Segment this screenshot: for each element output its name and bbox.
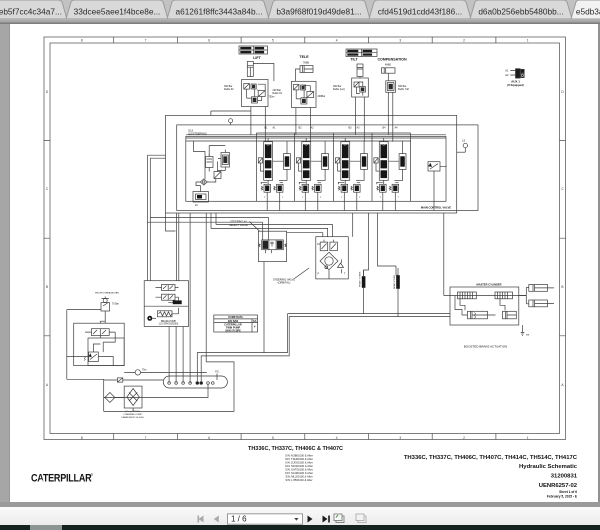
label 300 bar relief lift <box>224 85 234 91</box>
wire to master cylinder supply <box>353 213 444 296</box>
master cylinder tank port <box>521 325 530 337</box>
svg-text:3: 3 <box>399 436 401 440</box>
svg-text:B: B <box>561 285 563 289</box>
steering cylinder 1 <box>529 285 554 292</box>
svg-text:RELIFE (GREASE) FAN: RELIFE (GREASE) FAN <box>95 291 119 294</box>
pump block links <box>93 321 115 365</box>
section port labels <box>265 127 399 130</box>
svg-text:MASTER CYLINDER: MASTER CYLINDER <box>477 282 502 286</box>
svg-text:6: 6 <box>208 436 210 440</box>
wires below aux <box>457 151 466 153</box>
main pump block <box>74 323 125 365</box>
tele valve box <box>292 81 317 107</box>
slave cylinder right <box>503 311 517 319</box>
svg-text:31200831: 31200831 <box>551 474 578 480</box>
manifold body <box>163 376 227 388</box>
svg-text:75 Bar: 75 Bar <box>112 303 119 306</box>
main valve pressure rails <box>186 135 446 141</box>
svg-text:P.S.: P.S. <box>215 371 219 373</box>
svg-text:BRAKE PUMP: BRAKE PUMP <box>161 320 177 323</box>
label relief grease fan <box>95 291 119 294</box>
svg-text:CATERPILLAR: CATERPILLAR <box>31 473 92 485</box>
pump solenoid valve <box>85 329 115 336</box>
svg-text:B3: B3 <box>349 127 353 130</box>
label 200 bar relief lift <box>269 89 283 99</box>
steering cylinder 2 <box>529 300 554 307</box>
svg-text:A1: A1 <box>505 69 509 73</box>
svg-text:COMPENSATION: COMPENSATION <box>377 58 406 62</box>
svg-text:4: 4 <box>336 39 338 43</box>
footer model list <box>404 455 578 499</box>
aux1 quick couplers <box>510 69 524 78</box>
tele valve internals <box>294 85 314 105</box>
label steering unit <box>273 277 295 284</box>
svg-text:S/N: MJB00100 & After: S/N: MJB00100 & After <box>285 454 313 458</box>
svg-text:TILT: TILT <box>350 58 358 62</box>
svg-text:Hydraulic Schematic: Hydraulic Schematic <box>519 464 578 470</box>
previous page button (disabled) <box>214 516 219 523</box>
svg-text:8: 8 <box>81 39 83 43</box>
border zone letters and numbers <box>46 39 565 440</box>
svg-text:LS: LS <box>462 139 465 143</box>
svg-text:750m: 750m <box>269 96 275 99</box>
svg-text:A3: A3 <box>357 127 361 130</box>
svg-text:REAR STEER: REAR STEER <box>393 275 396 289</box>
steering unit leader <box>295 268 310 279</box>
compensation valve <box>386 81 396 93</box>
brake pump motor <box>147 316 156 321</box>
svg-text:300 BAR: 300 BAR <box>228 320 238 323</box>
ols check component <box>214 172 221 179</box>
valve section 1 lift spool <box>258 138 290 211</box>
tilt valve box <box>352 78 369 97</box>
svg-text:Sheet 1 of 6: Sheet 1 of 6 <box>559 490 577 494</box>
svg-text:Relife (Let): Relife (Let) <box>333 88 345 91</box>
manifold ps tick <box>216 374 218 381</box>
label 300 bar tilt <box>333 85 345 91</box>
manifold drain line <box>104 384 208 397</box>
legend table 2 <box>346 49 377 57</box>
manifold steer lines <box>197 262 289 382</box>
return filter box <box>124 386 142 408</box>
fan relief left loop <box>67 310 104 412</box>
browser tab bar <box>0 0 600 19</box>
svg-text:S/N: DJG00100 & After: S/N: DJG00100 & After <box>285 461 313 465</box>
svg-text:(If Equipped): (If Equipped) <box>507 83 524 87</box>
rear steer coupler <box>393 268 400 317</box>
ls vent port <box>462 139 467 153</box>
svg-text:2: 2 <box>463 39 465 43</box>
brake pump strainer <box>158 308 179 317</box>
svg-text:D: D <box>561 90 564 94</box>
svg-text:MAIN CONTROL VALVE: MAIN CONTROL VALVE <box>421 206 451 210</box>
lift valve box <box>242 80 268 107</box>
svg-text:LIFT: LIFT <box>253 56 261 60</box>
pump relief valve <box>67 352 99 362</box>
tilt cylinder <box>357 64 363 78</box>
svg-text:4: 4 <box>336 436 338 440</box>
master cylinder upper left <box>458 292 477 299</box>
border zone ticks bottom <box>114 434 496 440</box>
svg-text:B1: B1 <box>265 127 269 130</box>
svg-text:C: C <box>46 187 49 191</box>
svg-text:AUX 1: AUX 1 <box>511 80 520 84</box>
svg-text:4HB0: 4HB0 <box>385 63 392 66</box>
svg-text:#: # <box>254 326 256 329</box>
lift valve internals <box>244 84 265 104</box>
valve section 3 tilt spool <box>335 138 367 211</box>
svg-text:A2: A2 <box>311 127 315 130</box>
svg-text:A2: A2 <box>505 73 509 77</box>
compensation cylinder <box>382 68 396 81</box>
ols wiring <box>194 141 226 192</box>
wire main valve left edge drop <box>166 213 176 231</box>
slave cylinder left <box>462 311 488 319</box>
first page button (disabled) <box>198 516 204 523</box>
master cylinder internal wires <box>455 296 505 316</box>
sheet border outer frame <box>44 37 566 440</box>
svg-text:S/N: MLJ00100 & After: S/N: MLJ00100 & After <box>285 475 312 479</box>
svg-text:UENR6257-02: UENR6257-02 <box>539 483 578 489</box>
ols bottom relief box <box>193 192 208 208</box>
strip between tabs and page <box>0 19 600 24</box>
steering unit check bottom <box>338 259 344 273</box>
label combined pump <box>121 411 144 419</box>
svg-text:75m: 75m <box>142 370 147 372</box>
svg-text:D: D <box>46 90 49 94</box>
serial number list <box>285 454 313 483</box>
border zone ticks top <box>114 37 496 43</box>
svg-text:TH336C, TH337C, TH406C, TH407C: TH336C, TH337C, TH406C, TH407C, TH414C, … <box>404 455 578 461</box>
steering unit top wires <box>211 213 332 237</box>
tilt valve internals <box>354 82 365 96</box>
svg-text:S/N: TDH00100 & After: S/N: TDH00100 & After <box>285 457 313 461</box>
wires comp valve to main valve <box>388 92 393 141</box>
svg-text:®: ® <box>91 473 94 477</box>
main control valve outer body <box>166 115 457 213</box>
wires main valve bottom left drops <box>148 155 166 281</box>
pilot solenoid valve 2 <box>156 294 179 300</box>
svg-text:Relife #2: Relife #2 <box>224 88 234 91</box>
svg-text:DRAIN RATIO 55.0000: DRAIN RATIO 55.0000 <box>121 416 144 419</box>
steering cylinder feed split <box>519 288 529 304</box>
svg-text:C: C <box>561 187 564 191</box>
svg-text:Relife 7o8: Relife 7o8 <box>398 88 409 91</box>
steering select valve ports <box>263 217 272 253</box>
svg-text:7HB8: 7HB8 <box>303 62 310 65</box>
svg-text:GA: GA <box>253 320 257 323</box>
front steer coupler <box>359 270 365 314</box>
label 200bar tele <box>318 95 326 98</box>
caterpillar logo <box>31 473 94 485</box>
wire lift area horizontal <box>211 111 251 115</box>
border zone ticks sides <box>44 141 566 336</box>
ols reducing valve <box>206 154 214 172</box>
svg-text:55/45 70 BPE: 55/45 70 BPE <box>225 329 241 332</box>
main control valve outer boundary 2 <box>177 125 478 211</box>
svg-text:1: 1 <box>527 39 529 43</box>
valve section 4 compensation spool <box>374 138 406 211</box>
svg-text:FRONT STEER: FRONT STEER <box>359 271 361 287</box>
wires tilt valve to main valve <box>355 97 364 142</box>
svg-text:S/N: SCH00100 & After: S/N: SCH00100 & After <box>285 471 313 475</box>
svg-text:1: 1 <box>527 436 529 440</box>
pilot accumulator element <box>168 297 182 304</box>
steering select leader line <box>249 222 259 232</box>
label 300 bar comp <box>398 85 409 91</box>
pump data table <box>214 315 258 332</box>
tank return line bottom <box>104 408 234 412</box>
label brake pump <box>159 320 179 326</box>
pdf toolbar <box>0 507 600 526</box>
inline filter <box>104 378 164 382</box>
pilot solenoid valve 1 <box>156 285 179 291</box>
legend table 1 <box>239 46 268 54</box>
svg-text:P: P <box>318 274 320 276</box>
svg-text:200Bar: 200Bar <box>318 95 326 98</box>
svg-text:(ORBITAL): (ORBITAL) <box>278 281 291 285</box>
svg-text:ms: ms <box>526 334 530 337</box>
svg-text:A: A <box>46 383 49 387</box>
svg-text:B4: B4 <box>383 127 387 130</box>
ols vent <box>229 119 233 125</box>
svg-text:S/N: LYB00100 & After: S/N: LYB00100 & After <box>285 478 312 482</box>
svg-text:3: 3 <box>399 39 401 43</box>
tele cylinder <box>296 66 314 82</box>
brake lines to master cylinder <box>288 314 451 317</box>
master cylinder upper right <box>495 292 513 299</box>
valve section 2 tele spool <box>296 138 328 211</box>
svg-text:LS: LS <box>317 244 320 246</box>
steering select valve body <box>258 231 286 261</box>
label AUX 1 <box>507 80 524 88</box>
pump inner block <box>88 338 124 366</box>
svg-text:#1: #1 <box>195 204 198 207</box>
label OLS <box>188 129 207 136</box>
svg-text:(1.5 GPM 55/5200): (1.5 GPM 55/5200) <box>159 324 179 326</box>
page number field <box>228 514 303 524</box>
ols shuttle valve <box>196 179 211 185</box>
steering unit check valves <box>320 240 337 251</box>
svg-text:5: 5 <box>272 39 274 43</box>
previous view icon <box>334 514 344 523</box>
svg-text:COMBINED PUMP: COMBINED PUMP <box>123 414 142 416</box>
main valve right end relief <box>428 162 447 211</box>
last page button <box>323 516 330 523</box>
svg-text:7: 7 <box>145 39 147 43</box>
svg-text:(LS/STEERING): (LS/STEERING) <box>188 132 207 136</box>
svg-text:A: A <box>561 383 564 387</box>
svg-text:TELE: TELE <box>299 55 309 59</box>
next view icon (disabled) <box>356 514 366 523</box>
svg-text:5: 5 <box>272 436 274 440</box>
coupler feed wires <box>364 213 399 276</box>
suction filter diamond <box>67 379 124 402</box>
manifold ports <box>168 382 214 385</box>
lift cylinder <box>247 62 253 77</box>
master cylinder block <box>450 287 519 325</box>
svg-text:A4: A4 <box>395 127 399 130</box>
main valve section dividers <box>256 133 410 201</box>
svg-text:TH336C, TH337C, TH406C & TH407: TH336C, TH337C, TH406C & TH407C <box>248 446 343 452</box>
pilot block divider <box>144 305 188 307</box>
svg-text:PUMP DATA: PUMP DATA <box>228 316 243 319</box>
next page button <box>308 516 313 523</box>
gauge circle <box>124 370 207 375</box>
wires select valve to left rail <box>148 217 269 222</box>
svg-text:7: 7 <box>145 436 147 440</box>
steering unit body <box>316 237 349 279</box>
svg-text:2: 2 <box>463 436 465 440</box>
svg-text:B2: B2 <box>299 127 303 130</box>
svg-text:6: 6 <box>208 39 210 43</box>
main control valve inner container <box>186 137 446 202</box>
label ps <box>215 371 219 373</box>
wires lift valve to main valve <box>251 107 265 142</box>
svg-text:A1: A1 <box>273 127 277 130</box>
steering unit gerotor <box>320 252 338 279</box>
svg-text:T: T <box>344 274 346 276</box>
svg-text:S/N: GAT00100 & After: S/N: GAT00100 & After <box>285 468 313 472</box>
svg-text:BOOSTED BRAKE ACTUATION: BOOSTED BRAKE ACTUATION <box>464 345 507 349</box>
svg-text:February 5, 2015 - E: February 5, 2015 - E <box>547 494 577 498</box>
wires tele valve to main valve <box>296 108 311 142</box>
ols solenoid valve <box>221 150 230 171</box>
pilot supply block <box>144 281 188 327</box>
svg-text:S/N: SKG00100 & After: S/N: SKG00100 & After <box>285 464 313 468</box>
steering unit labels <box>317 244 346 276</box>
fan relief valve <box>101 297 119 324</box>
pilot block drop wires <box>169 213 190 383</box>
svg-text:8: 8 <box>81 436 83 440</box>
steering select valve spool <box>259 240 287 250</box>
svg-text:B: B <box>46 285 48 289</box>
wire lift cylinder head to valve <box>253 64 274 82</box>
master cylinder supply line <box>444 295 527 297</box>
aux1 port labels <box>505 69 509 78</box>
tank box <box>206 213 234 411</box>
label steering select valve <box>229 220 248 227</box>
